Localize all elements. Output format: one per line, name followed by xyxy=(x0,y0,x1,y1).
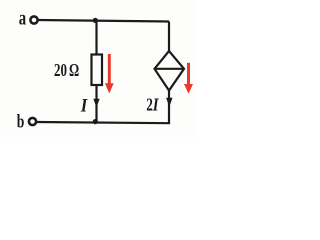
svg-text:I: I xyxy=(152,95,159,115)
svg-text:Ω: Ω xyxy=(69,60,79,80)
svg-text:I: I xyxy=(80,96,88,117)
svg-text:a: a xyxy=(19,8,26,30)
svg-text:b: b xyxy=(17,112,25,133)
svg-text:20: 20 xyxy=(54,60,67,80)
